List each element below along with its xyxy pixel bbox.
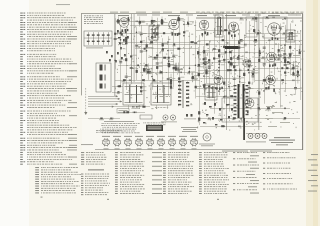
stamp block (146, 125, 163, 131)
tube V1 converter (119, 18, 129, 32)
models label block (269, 137, 295, 145)
tube V8 tube (266, 75, 276, 92)
gang label (86, 47, 103, 50)
schematic components (100, 17, 301, 128)
coils column E (233, 152, 259, 193)
top margin part labels (110, 12, 303, 14)
coils column F (263, 152, 318, 191)
IF can T3 (215, 15, 223, 37)
IF can mid A (123, 83, 144, 105)
schematic frame right border (301, 13, 304, 150)
tube socket diagrams (102, 136, 198, 149)
condenser list continuation (35, 167, 81, 193)
schematic value labels (99, 18, 305, 121)
IF can mid B (151, 83, 171, 105)
note text block (84, 15, 103, 23)
condenser list column (20, 13, 77, 165)
volume control cluster (140, 96, 170, 125)
switch wafer diagrams (161, 114, 198, 132)
tube V6 tube (214, 76, 223, 91)
alignment notes block (100, 121, 140, 133)
parts column C (163, 152, 194, 194)
schematic frame bottom border (95, 148, 303, 151)
RF cluster (106, 47, 126, 62)
rectifier section parts (203, 102, 233, 125)
wiring arrows (88, 95, 122, 108)
fine detail noise (115, 18, 303, 130)
power supply box (222, 98, 258, 122)
socket note block (96, 130, 121, 133)
tube V3 detector (199, 20, 209, 35)
dial lamps (246, 134, 267, 143)
tube V4 audio (229, 22, 239, 37)
power transformer T6 (234, 84, 266, 140)
tube V5 output (268, 23, 280, 40)
V1 bias network (117, 30, 129, 44)
tube shield box A (246, 17, 257, 37)
schematic frame top border (81, 12, 303, 15)
tuning gang block (84, 31, 112, 46)
parts column D (199, 152, 229, 194)
resistors column B (115, 152, 162, 194)
resistors column A (81, 152, 110, 195)
tube V9 rectifier (245, 99, 254, 114)
schematic frame left border (80, 13, 83, 95)
IF transformer hatch (178, 80, 189, 108)
IF can T2 (149, 26, 158, 40)
parts list header CONDENSERS (56, 3, 70, 6)
IF can mid C (205, 84, 217, 100)
output section labels (265, 106, 290, 127)
page number marks (41, 197, 220, 201)
tube V10 tube (243, 59, 251, 71)
part box (117, 109, 129, 113)
output transformer T5 (286, 30, 295, 42)
loop label (81, 143, 93, 146)
IF can leads (128, 105, 167, 109)
tube shield box B (263, 17, 287, 38)
bottom frame labels (222, 150, 272, 153)
speaker socket (199, 133, 215, 146)
tube V7 tube (267, 52, 277, 67)
shield bar (225, 46, 239, 49)
tube V2 IF amp (169, 19, 179, 36)
tube type labels (118, 15, 301, 16)
loop aerial L1 (96, 63, 111, 92)
schematic wires (88, 14, 302, 130)
dashed lead wire (84, 88, 87, 115)
